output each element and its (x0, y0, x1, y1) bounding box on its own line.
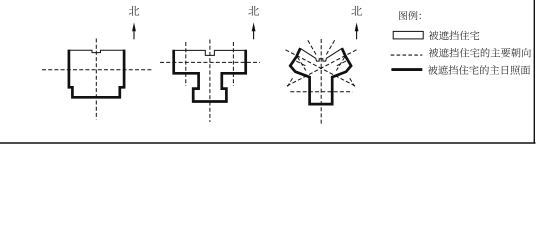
table cell border: bottom (0, 142, 536, 144)
building 3: left wing orientation steep dashed (inside wing) (298, 57, 306, 71)
north arrow 1: arrow shaft (133, 30, 135, 39)
legend row1 text 被遮挡住宅 (429, 31, 480, 40)
building 3: left wing orientation steep dashed (below, outside) (288, 78, 293, 86)
building 3: inner V facades thin with notch and center tab (300, 48, 342, 61)
building 3: left wing orientation steep dashed (308, 40, 317, 56)
north arrow 2: arrow head (252, 22, 256, 31)
building 3: left wing mid-axis short dashed (296, 61, 306, 66)
north arrow 3: arrow shaft (356, 30, 358, 39)
legend row3 text 被遮挡住宅的主日照面 (428, 65, 530, 74)
building 3: right wing orientation steep dashed (326, 40, 335, 56)
north label 北 #3 (351, 6, 361, 16)
building 3: main sunshine faces thick: wing caps, outer wing edges, stem (290, 48, 351, 104)
legend row2 text 被遮挡住宅的主要朝向 (429, 48, 531, 57)
building 3: right wing orientation steep dashed (inside wing) (336, 57, 344, 71)
building 2: horizontal axis dashed (160, 61, 260, 63)
legend row1 symbol: thin rectangle = 被遮挡住宅 (393, 31, 423, 39)
north arrow 2: arrow shaft (253, 30, 255, 39)
building 3: right wing orientation steep dashed (below, outside) (350, 78, 355, 86)
building 2: main sunshine faces thick: T outline with south foot (174, 50, 246, 102)
building 1: north facade thin line with center notch (69, 50, 124, 52)
building 2: center vertical axis dashed (209, 40, 211, 123)
building 2: right arm vertical axis dashed (232, 42, 234, 86)
building 3: left wing long axis dashed diagonal (286, 50, 357, 87)
building 3: vertical axis dashed (320, 39, 322, 126)
north arrow 1: arrow head (132, 22, 136, 31)
building 1: vertical orientation axis dashed (95, 39, 97, 120)
legend row2 symbol: dashed line = 主要朝向 (391, 54, 423, 56)
legend row3 symbol: thick line = 主日照面 (391, 68, 422, 71)
building 2: north facade thin line with center notch (174, 50, 246, 55)
building 3: right wing mid-axis short dashed (336, 61, 346, 66)
table cell border: right (533, 0, 535, 143)
building 2: left arm vertical axis dashed (185, 42, 187, 86)
north label 北 #2 (248, 6, 258, 16)
building 1: horizontal orientation axis dashed (42, 69, 153, 71)
legend title 图例: (399, 11, 421, 20)
building 3: right wing long axis dashed diagonal (286, 50, 357, 87)
north arrow 3: arrow head (355, 22, 359, 31)
building 3: horizontal axis dashed (290, 91, 352, 93)
north label 北 #1 (129, 6, 139, 16)
building 1: main sunshine faces thick: west edge, stepped south edge, east edge (69, 50, 124, 98)
